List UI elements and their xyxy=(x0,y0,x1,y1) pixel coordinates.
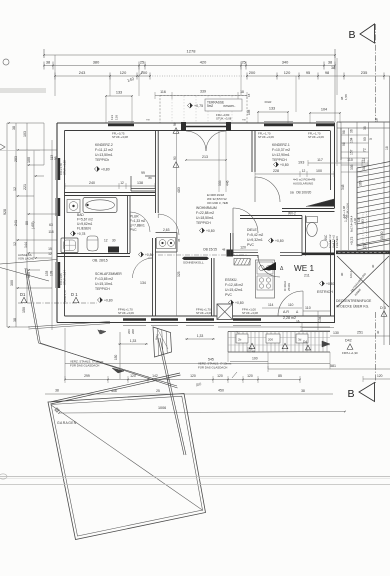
svg-text:130: 130 xyxy=(333,331,339,335)
dim 133 below windows 1 xyxy=(118,343,148,345)
svg-text:TEPPICH: TEPPICH xyxy=(272,158,287,162)
svg-text:110: 110 xyxy=(288,303,294,307)
svg-text:283: 283 xyxy=(14,156,18,162)
svg-text:235: 235 xyxy=(361,70,368,75)
svg-text:100: 100 xyxy=(252,357,258,361)
svg-text:D 1: D 1 xyxy=(71,292,78,297)
svg-text:+0,80: +0,80 xyxy=(275,239,284,243)
wc washbasin xyxy=(320,240,328,248)
walkway steep double line xyxy=(158,338,184,455)
svg-text:FFL+1,78: FFL+1,78 xyxy=(59,163,63,175)
garage diagonal xyxy=(51,405,203,511)
door arc kinderz1 xyxy=(255,177,280,202)
wall wc left xyxy=(301,216,303,256)
level marker wohnraum xyxy=(199,228,204,233)
svg-text:120: 120 xyxy=(217,374,223,378)
svg-text:U=7,88m1: U=7,88m1 xyxy=(130,224,145,228)
svg-text:193: 193 xyxy=(361,219,365,224)
svg-text:120: 120 xyxy=(247,374,253,378)
svg-text:D1: D1 xyxy=(20,292,26,297)
svg-text:0: 0 xyxy=(369,138,373,140)
svg-text:200: 200 xyxy=(268,338,273,342)
terrace level marker +0,75 xyxy=(187,103,192,108)
wc toilet xyxy=(307,223,317,237)
svg-text:72: 72 xyxy=(363,148,367,152)
svg-text:211: 211 xyxy=(304,274,310,278)
svg-text:D 3: D 3 xyxy=(380,306,386,310)
svg-text:F=12,48 m2: F=12,48 m2 xyxy=(225,283,243,287)
svg-text:25301: 25301 xyxy=(287,283,291,291)
svg-text:133: 133 xyxy=(110,115,114,120)
dim row y379 xyxy=(65,379,300,381)
svg-text:+0,80: +0,80 xyxy=(104,299,113,303)
svg-text:FIGR: FIGR xyxy=(265,100,272,104)
chimney block xyxy=(227,250,234,257)
door arc schlafzimmer xyxy=(133,258,153,278)
bad shower xyxy=(61,238,78,253)
svg-text:158: 158 xyxy=(247,109,251,115)
svg-text:300: 300 xyxy=(10,280,14,286)
band inner lines xyxy=(228,337,330,339)
direction triangle filled xyxy=(262,262,276,270)
svg-text:110: 110 xyxy=(305,306,311,310)
svg-text:FFL+1,05: FFL+1,05 xyxy=(59,273,63,285)
wall diele left xyxy=(230,233,232,256)
long line y363 xyxy=(65,363,330,365)
svg-text:STUK.+3,08: STUK.+3,08 xyxy=(112,135,128,139)
svg-text:F=13,65 m2: F=13,65 m2 xyxy=(95,277,113,281)
svg-text:WV-2: WV-2 xyxy=(288,212,296,216)
svg-text:OB 15/15: OB 15/15 xyxy=(203,248,217,252)
terrace dims 116 339 18 xyxy=(155,95,247,97)
svg-text:DECKENTRENNFUGE: DECKENTRENNFUGE xyxy=(336,299,372,303)
svg-text:134: 134 xyxy=(140,281,146,285)
vertical extension x65 xyxy=(64,328,66,379)
svg-text:STUK.+3,08: STUK.+3,08 xyxy=(242,311,258,315)
svg-text:120: 120 xyxy=(377,374,383,378)
svg-text:=Δ: =Δ xyxy=(296,319,300,323)
beam sonnenkoll dark strip xyxy=(182,257,209,260)
svg-text:+0,80: +0,80 xyxy=(206,229,215,233)
svg-text:+0,80: +0,80 xyxy=(235,301,244,305)
svg-text:ESSKÜ.: ESSKÜ. xyxy=(225,278,237,282)
svg-text:25: 25 xyxy=(156,389,160,393)
svg-text:325: 325 xyxy=(177,271,181,277)
window dim 133 left xyxy=(106,95,132,97)
svg-text:340: 340 xyxy=(282,60,289,65)
glass top edge at building corner xyxy=(28,322,110,328)
svg-text:DIELE: DIELE xyxy=(247,228,258,232)
level marker kinderz2 xyxy=(94,166,99,171)
extension verticals from top dims xyxy=(54,55,56,96)
dark shaft rect xyxy=(108,247,119,253)
svg-text:120: 120 xyxy=(240,246,246,250)
svg-text:AUSGLARUNG: AUSGLARUNG xyxy=(293,182,314,186)
svg-text:STUK.+3,06: STUK.+3,06 xyxy=(196,311,212,315)
wc cistern xyxy=(307,217,318,223)
svg-text:138: 138 xyxy=(137,181,143,185)
long line y394 xyxy=(45,393,333,395)
svg-text:95: 95 xyxy=(306,70,310,75)
svg-text:2,28 m2: 2,28 m2 xyxy=(283,316,296,320)
svg-text:99: 99 xyxy=(141,171,145,175)
svg-text:SONNENKOLL.: SONNENKOLL. xyxy=(183,261,205,265)
window left wall lower xyxy=(58,262,60,288)
left dim verticals xyxy=(6,123,8,327)
svg-text:420: 420 xyxy=(200,60,207,65)
tilted outside stair xyxy=(153,327,172,357)
long dim line 581 xyxy=(268,368,390,370)
svg-text:120: 120 xyxy=(284,70,291,75)
svg-text:TEPPICh: TEPPICh xyxy=(95,158,109,162)
door arc plur-bad xyxy=(130,212,150,232)
svg-text:+0,80: +0,80 xyxy=(145,253,154,257)
svg-text:WE 1: WE 1 xyxy=(294,264,314,273)
closet stubs kinderz2 xyxy=(145,175,156,177)
wall diele top xyxy=(240,215,302,217)
svg-text:FÜR DAS GLASDACH: FÜR DAS GLASDACH xyxy=(70,364,99,368)
svg-text:450: 450 xyxy=(218,389,224,393)
svg-text:30: 30 xyxy=(112,239,116,243)
fold loop left edge xyxy=(0,474,7,479)
svg-text:+0,75: +0,75 xyxy=(194,104,203,108)
svg-text:FLIESEN: FLIESEN xyxy=(335,236,339,248)
svg-text:KINDERZ.2: KINDERZ.2 xyxy=(95,143,113,147)
dim row kinderz2 xyxy=(65,185,155,187)
svg-text:B: B xyxy=(348,29,355,41)
svg-text:104: 104 xyxy=(350,137,354,143)
svg-text:15: 15 xyxy=(48,247,52,251)
svg-text:U=13,50m1: U=13,50m1 xyxy=(95,153,113,157)
svg-text:25: 25 xyxy=(140,60,144,65)
svg-text:OB. 28/15: OB. 28/15 xyxy=(92,259,107,263)
door arc wohnraum to diele xyxy=(233,208,258,233)
svg-text:80: 80 xyxy=(25,221,29,225)
svg-text:25: 25 xyxy=(241,60,245,65)
level marker schlafzimmer xyxy=(97,297,102,302)
svg-text:DB: DB xyxy=(290,191,294,195)
svg-text:12: 12 xyxy=(120,181,124,185)
wall bad bottom xyxy=(57,253,130,255)
svg-text:FÜR DAS GLASDACH: FÜR DAS GLASDACH xyxy=(198,366,227,370)
svg-text:305: 305 xyxy=(350,164,354,170)
svg-text:118: 118 xyxy=(48,230,53,234)
svg-text:98: 98 xyxy=(325,70,329,75)
section line dash-dot bottom xyxy=(375,312,377,383)
rot dim 325 xyxy=(176,131,178,316)
svg-text:+0,80: +0,80 xyxy=(101,168,110,172)
svg-text:PVC: PVC xyxy=(247,243,255,247)
terrace door posts xyxy=(181,122,186,131)
sill continuous line below bottom wall xyxy=(218,326,302,328)
top dim line row2 xyxy=(44,65,335,67)
svg-text:+0,73: +0,73 xyxy=(350,236,354,245)
band triangles xyxy=(249,343,255,348)
door arc entry xyxy=(278,291,303,316)
svg-text:STUK.+3,06: STUK.+3,06 xyxy=(258,135,274,139)
svg-text:208: 208 xyxy=(131,329,135,334)
svg-text:1278: 1278 xyxy=(187,49,197,54)
entry porch lines right of building xyxy=(337,121,390,123)
kitchen counter hatched xyxy=(234,259,250,266)
dim 120 right bottom xyxy=(363,378,390,380)
svg-text:63: 63 xyxy=(49,223,53,227)
lines right mid xyxy=(300,326,330,328)
window bottom 1 xyxy=(123,318,146,320)
left dim ticks xyxy=(7,122,44,124)
fold line upper xyxy=(0,476,390,478)
window dim 133 right xyxy=(258,111,288,113)
wall kinderz1 left xyxy=(251,131,253,173)
svg-text:STUK+3,04: STUK+3,04 xyxy=(346,203,350,218)
svg-text:100: 100 xyxy=(27,157,31,163)
svg-text:18: 18 xyxy=(375,118,379,122)
svg-text:OB 100/20: OB 100/20 xyxy=(296,191,311,195)
svg-text:138: 138 xyxy=(115,115,119,120)
window top kinderz2 xyxy=(108,124,134,126)
arrow glyph left edge xyxy=(0,144,5,150)
svg-text:30: 30 xyxy=(376,330,380,334)
svg-text:251: 251 xyxy=(357,331,363,335)
svg-text:1006: 1006 xyxy=(158,406,166,410)
svg-text:18: 18 xyxy=(247,93,251,97)
window bottom 2 xyxy=(151,318,178,320)
left shallow diagonals xyxy=(0,260,57,265)
svg-text:KINDERZ.1: KINDERZ.1 xyxy=(272,143,290,147)
corner symbol xyxy=(55,408,58,411)
chimney xbox xyxy=(217,304,233,320)
balcony hatched band xyxy=(228,331,330,333)
bad washbasin xyxy=(67,200,80,213)
svg-text:38: 38 xyxy=(13,318,17,322)
svg-text:90: 90 xyxy=(363,137,367,141)
svg-text:120: 120 xyxy=(190,374,196,378)
svg-text:F=11,12 m2: F=11,12 m2 xyxy=(95,148,113,152)
svg-text:85: 85 xyxy=(278,374,282,378)
svg-text:12: 12 xyxy=(13,187,17,191)
svg-text:200: 200 xyxy=(249,70,256,75)
small arrow on diag xyxy=(100,330,106,334)
svg-text:RG-4B: RG-4B xyxy=(247,350,255,354)
right strip tick rows xyxy=(341,134,369,136)
svg-text:PVC: PVC xyxy=(130,228,137,232)
kitchen appliance column xyxy=(256,260,275,298)
svg-text:380: 380 xyxy=(93,60,100,65)
vertical dim 150 left of stair xyxy=(119,332,121,379)
svg-text:STUK.+3,04: STUK.+3,04 xyxy=(63,270,67,285)
svg-text:104: 104 xyxy=(318,316,322,322)
svg-text:38: 38 xyxy=(12,126,16,130)
svg-text:U=15,10m1: U=15,10m1 xyxy=(95,282,113,286)
wall wohnraum/esskue divider xyxy=(211,258,213,316)
svg-text:FFPH.+1,90: FFPH.+1,90 xyxy=(342,351,358,355)
svg-text:STUK.+3,06: STUK.+3,06 xyxy=(308,135,324,139)
svg-text:120: 120 xyxy=(120,70,127,75)
svg-text:PLUR: PLUR xyxy=(130,215,139,219)
dim 120 esskue xyxy=(233,249,258,251)
dim 1006 line xyxy=(59,412,345,414)
svg-text:150: 150 xyxy=(22,307,26,313)
svg-text:B: B xyxy=(347,388,354,400)
svg-text:VON LACHE: VON LACHE xyxy=(18,257,34,261)
top dim line overall 1278 xyxy=(44,54,335,56)
svg-text:STUK.+3,08: STUK.+3,08 xyxy=(63,160,67,175)
svg-text:U=12,90m1: U=12,90m1 xyxy=(272,153,290,157)
wall kinderz1 bottom xyxy=(282,208,335,210)
svg-text:89: 89 xyxy=(148,176,152,180)
svg-text:1,33: 1,33 xyxy=(197,334,204,338)
svg-text:98: 98 xyxy=(342,130,346,134)
svg-text:100: 100 xyxy=(316,169,322,173)
level marker esskue xyxy=(228,300,233,305)
svg-text:133: 133 xyxy=(116,91,122,95)
svg-text:SCHLAFZIMMER: SCHLAFZIMMER xyxy=(95,272,122,276)
svg-text:213: 213 xyxy=(202,155,208,159)
svg-text:FLIESEN: FLIESEN xyxy=(77,227,91,231)
wall bad/plur divider xyxy=(127,196,129,253)
gray smudge scan artifact xyxy=(0,88,46,93)
svg-text:928: 928 xyxy=(3,209,7,215)
door arc plur-wohnraum xyxy=(158,214,179,235)
svg-text:339: 339 xyxy=(200,90,206,94)
wall kinderz2 right (vertical) xyxy=(155,131,157,214)
right strip verticals xyxy=(340,122,342,250)
svg-text:48: 48 xyxy=(222,248,226,252)
svg-text:38: 38 xyxy=(363,126,367,130)
svg-text:18: 18 xyxy=(385,146,389,150)
svg-text:F=10,37 m2: F=10,37 m2 xyxy=(272,148,290,152)
level marker kinderz1 xyxy=(273,162,278,167)
outer wall top xyxy=(57,122,335,124)
level marker diele xyxy=(268,238,273,243)
dash-dot datum line through D1 xyxy=(18,302,97,304)
section line dash-dot top xyxy=(375,24,377,120)
svg-text:38: 38 xyxy=(46,60,50,65)
glass roof ascending double line xyxy=(50,373,180,402)
svg-text:116: 116 xyxy=(160,90,166,94)
wall bad top xyxy=(65,192,156,194)
dim 117 110 row xyxy=(308,162,368,164)
svg-text:GARAGEN: GARAGEN xyxy=(57,421,77,425)
wall wc bottom dark xyxy=(302,253,334,256)
svg-text:U=9,62m1: U=9,62m1 xyxy=(77,222,92,226)
exterior stair hatch xyxy=(357,166,390,172)
svg-text:166,4: 166,4 xyxy=(349,271,353,278)
svg-text:150: 150 xyxy=(114,354,118,360)
svg-text:+0,78: +0,78 xyxy=(77,232,86,236)
svg-text:228: 228 xyxy=(273,169,279,173)
svg-text:36: 36 xyxy=(350,129,354,133)
door width dim 213 xyxy=(186,159,226,161)
svg-text:2,63: 2,63 xyxy=(163,228,170,232)
svg-text:114: 114 xyxy=(268,303,274,307)
dim row kinderz1 xyxy=(255,173,334,175)
level marker plur xyxy=(138,252,143,257)
svg-text:INTERPL.: INTERPL. xyxy=(223,104,236,108)
svg-text:WOHNRAUM: WOHNRAUM xyxy=(196,206,217,210)
svg-text:D42: D42 xyxy=(345,339,352,343)
svg-text:38: 38 xyxy=(331,66,335,70)
svg-text:241: 241 xyxy=(14,220,18,226)
svg-text:STUK.+3,06: STUK.+3,06 xyxy=(118,311,134,315)
wall schlafzimmer right xyxy=(152,238,154,316)
double washbasin xyxy=(157,238,176,249)
canopy descending double line xyxy=(39,343,178,386)
svg-text:2b: 2b xyxy=(238,338,242,342)
svg-text:35: 35 xyxy=(177,238,181,242)
svg-text:38: 38 xyxy=(328,60,332,65)
svg-text:OK=200 3, 7EB: OK=200 3, 7EB xyxy=(207,201,228,205)
svg-text:240: 240 xyxy=(89,181,95,185)
svg-text:5m2: 5m2 xyxy=(207,104,213,108)
svg-text:+0,80: +0,80 xyxy=(326,282,335,286)
svg-text:30: 30 xyxy=(371,264,375,268)
arrow mark below corner xyxy=(98,330,104,334)
svg-text:133: 133 xyxy=(269,107,275,111)
svg-text:F=1,33 m2: F=1,33 m2 xyxy=(130,219,146,223)
svg-text:12: 12 xyxy=(48,252,52,256)
svg-text:ESTRICH: ESTRICH xyxy=(317,290,333,294)
door arc diele to esskue xyxy=(258,255,280,277)
svg-text:98: 98 xyxy=(342,142,346,146)
dash-dot axis through beam xyxy=(158,254,248,256)
svg-text:112: 112 xyxy=(362,158,366,163)
top dim line row3 xyxy=(55,75,150,77)
svg-text:221: 221 xyxy=(23,184,27,190)
svg-text:PVC: PVC xyxy=(225,293,233,297)
window bottom 3 xyxy=(186,318,214,320)
lintel wedge dark above entry xyxy=(306,199,334,207)
outer wall right top part xyxy=(330,131,332,191)
svg-text:243: 243 xyxy=(79,70,86,75)
window top kinderz1 xyxy=(264,124,293,126)
dim 133 below windows 2 xyxy=(185,338,215,340)
svg-text:133: 133 xyxy=(45,270,49,276)
bad wc bowl xyxy=(87,236,98,251)
svg-text:IN DECKE ÜBER KG.: IN DECKE ÜBER KG. xyxy=(336,305,369,309)
svg-text:12: 12 xyxy=(104,239,108,243)
svg-text:555: 555 xyxy=(218,180,222,186)
terrace dashed outline xyxy=(160,96,247,124)
terrace door swing arcs xyxy=(186,131,206,151)
svg-text:104: 104 xyxy=(321,108,327,112)
svg-text:U=9,32m1: U=9,32m1 xyxy=(247,238,263,242)
svg-text:(-65): (-65) xyxy=(31,221,35,229)
stair dotted guides xyxy=(362,212,364,250)
band overlay boxes xyxy=(236,334,248,343)
svg-text:120: 120 xyxy=(130,374,136,378)
wall diele bottom xyxy=(233,252,258,254)
svg-text:38: 38 xyxy=(55,389,59,393)
dark band below stair xyxy=(336,251,390,255)
svg-text:299: 299 xyxy=(84,374,90,378)
steep diagonal canopy edge (double) xyxy=(25,268,39,343)
vertical extensions below band xyxy=(227,352,229,362)
bad bathtub xyxy=(83,198,117,213)
terrace label box xyxy=(205,99,242,111)
svg-text:483: 483 xyxy=(177,187,181,193)
svg-text:U=18,50m1: U=18,50m1 xyxy=(196,216,214,220)
svg-text:90: 90 xyxy=(173,122,177,126)
glyph circle top left xyxy=(3,59,9,65)
svg-text:18: 18 xyxy=(240,90,244,94)
svg-text:U=15,42m1: U=15,42m1 xyxy=(225,288,243,292)
svg-text:F=5,42 m2: F=5,42 m2 xyxy=(247,233,263,237)
svg-text:110: 110 xyxy=(347,158,353,162)
outer wall left xyxy=(56,123,58,323)
svg-text:+0,80: +0,80 xyxy=(280,163,289,167)
svg-text:STUK +3,08: STUK +3,08 xyxy=(216,117,232,121)
